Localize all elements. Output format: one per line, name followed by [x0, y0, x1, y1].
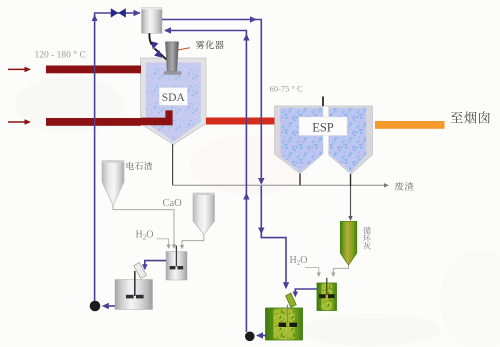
- svg-text:CaO: CaO: [163, 198, 183, 209]
- pump (left): [90, 301, 101, 312]
- carbide slag feed line: [113, 205, 174, 244]
- inlet gas arrow lower: [8, 121, 26, 123]
- recycle ash hopper (循环灰): [340, 221, 357, 265]
- atomizer label 雾化器: [196, 41, 205, 50]
- ESP chamber 1 interior: [280, 108, 323, 172]
- premix tank (small gray mixer): [166, 252, 187, 281]
- recycle ash discharge line: [333, 265, 348, 272]
- ESP hopper 2 drop line to recycle hopper: [350, 174, 352, 186]
- pump (green circuit): [245, 332, 255, 342]
- carbide slag hopper label 电石渣: [127, 162, 134, 170]
- atomizer body: [165, 42, 178, 72]
- waste residue label 废渣: [395, 182, 404, 191]
- svg-text:SDA: SDA: [162, 92, 186, 104]
- atomizer label leader line: [178, 48, 190, 50]
- pipe: big green mixer to pump: [260, 335, 267, 337]
- slurry feed tank: [142, 8, 163, 34]
- pipe: ash mixer to green mixer chute: [295, 289, 317, 293]
- atomizer flange: [164, 71, 182, 74]
- H2O feed line (left): [157, 239, 169, 245]
- waste residue line 废渣: [173, 184, 385, 186]
- recycle ash label 循环灰 (vertical): [363, 227, 371, 235]
- ESP top stub: [322, 97, 324, 107]
- svg-text:ESP: ESP: [312, 120, 334, 134]
- carbide slag hopper (电石渣): [102, 161, 124, 206]
- inlet gas arrow upper: [8, 68, 26, 70]
- ESP chamber 2 shell: [323, 106, 373, 174]
- pipe: feed tank to atomizer: [149, 33, 151, 45]
- svg-text:60-75 ° C: 60-75 ° C: [270, 84, 303, 94]
- big green mixer agitator: [286, 305, 288, 323]
- ESP chamber 1 shell: [275, 106, 323, 174]
- green mixer inlet chute: [286, 293, 297, 307]
- stack label 至烟囱: [451, 112, 463, 123]
- H2O feed line (right): [305, 268, 319, 273]
- SDA spray dry absorber vessel shell: [141, 58, 207, 145]
- pipe: green pump riser to feed tank: [165, 31, 246, 333]
- flue gas duct inside SDA (L-shaped): [141, 110, 173, 125]
- ESP chamber 2 interior: [329, 108, 366, 172]
- pipe: pump to valve riser (left): [95, 13, 140, 302]
- premix tank agitator: [175, 246, 177, 267]
- slurry tank agitator: [134, 271, 136, 296]
- pipe: down-leg continuation to green mixer chute: [261, 186, 286, 285]
- slurry tank (big gray): [115, 280, 153, 310]
- inlet gas duct upper (120-180C): [46, 66, 141, 74]
- SDA vessel interior (speckled slurry): [146, 63, 201, 142]
- SDA to ESP duct: [206, 118, 275, 125]
- SDA bottom discharge line: [172, 144, 174, 185]
- ash mixer agitator: [326, 278, 328, 295]
- ESP hopper 1 drop line: [299, 174, 301, 186]
- slurry mix tank (big green): [266, 308, 303, 340]
- inlet gas duct lower: [46, 118, 141, 126]
- pipe: feed tank to ESP/mixer down-leg: [162, 20, 261, 181]
- CaO feed line: [182, 235, 204, 245]
- pipe: premix tank to slurry tank chute: [145, 261, 166, 266]
- ESP outlet duct (orange): [375, 121, 445, 129]
- svg-text:120 - 180 ° C: 120 - 180 ° C: [35, 50, 86, 61]
- slurry tank inlet chute: [134, 263, 147, 279]
- valve: [111, 8, 126, 17]
- pipe: slurry tank to pump: [107, 305, 115, 307]
- CaO hopper: [193, 193, 215, 235]
- SDA label box: [159, 88, 187, 106]
- ash mixer (small green): [317, 283, 337, 311]
- ESP label box: [299, 117, 347, 135]
